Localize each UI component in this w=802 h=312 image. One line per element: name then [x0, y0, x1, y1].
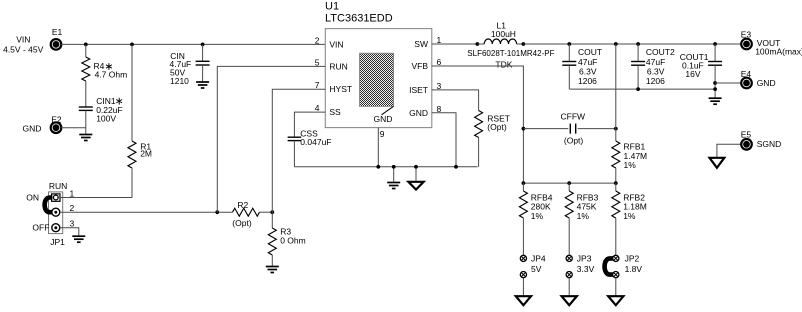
wire CIN to ground [202, 65, 204, 82]
svg-text:HYST: HYST [329, 84, 352, 94]
wire RFB3 to JP3 [568, 218, 570, 255]
wire cap ground rail [569, 88, 715, 90]
wire JP4 to ground [522, 278, 524, 296]
wire R1 to JP1 pin1 [131, 168, 133, 198]
wire SS pin4 to CSS [294, 112, 325, 137]
svg-text:4.7 Ohm: 4.7 Ohm [95, 69, 128, 79]
wire R4 to CIN1 [85, 81, 87, 107]
resistor RFB1 [612, 141, 620, 168]
ground below CIN [196, 81, 209, 83]
svg-text:LTC3631EDD: LTC3631EDD [325, 13, 393, 25]
IC U1 outline [325, 29, 432, 128]
svg-text:0.047uF: 0.047uF [300, 137, 331, 147]
wire U1 pin 9 [377, 128, 379, 167]
wire RFB1 bottom [615, 168, 617, 183]
junction L1 left [476, 42, 480, 46]
terminal E1 [51, 39, 62, 50]
JP2 shunt installed [605, 258, 613, 274]
svg-text:E3: E3 [741, 29, 752, 39]
wire RFB4 to JP4 [522, 218, 524, 255]
wire JP3 to ground [568, 278, 570, 296]
svg-text:R2: R2 [237, 200, 248, 210]
svg-text:1.8V: 1.8V [625, 264, 643, 274]
wire CSS to ground rail [293, 141, 295, 167]
ground (triangle) JP4 [516, 296, 531, 305]
wire JP1 pin2 run net [60, 211, 233, 213]
junction pin8/rail [454, 165, 458, 169]
junction CFFW/RFB1 [614, 127, 618, 131]
ground below R3 [266, 266, 279, 268]
junction COUT top [567, 42, 571, 46]
svg-text:1206: 1206 [646, 76, 665, 86]
svg-text:OFF: OFF [32, 223, 49, 233]
wire CFFW left [523, 128, 568, 130]
svg-text:1%: 1% [531, 211, 544, 221]
svg-text:E5: E5 [741, 130, 752, 140]
resistor R1 [128, 141, 136, 168]
junction RFB4 top [522, 181, 526, 185]
svg-text:COUT2: COUT2 [646, 47, 675, 57]
wire CFFW right [578, 128, 616, 130]
junction earth/rail [392, 165, 396, 169]
terminal E4 [741, 78, 752, 89]
U1 exposed pad [360, 53, 394, 106]
wire triangle stub [415, 167, 417, 182]
connector JP3 pin1 [566, 255, 572, 261]
wire SW rail to VOUT [523, 43, 741, 45]
wire RFB3 column [568, 183, 570, 191]
svg-text:ON: ON [26, 193, 39, 203]
svg-text:SS: SS [329, 107, 341, 117]
svg-text:6.3V: 6.3V [579, 66, 597, 76]
ground (earth) under U1 [387, 182, 400, 184]
svg-text:SLF6028T-101MR42-PF: SLF6028T-101MR42-PF [467, 49, 554, 58]
svg-text:VFB: VFB [411, 61, 428, 71]
resistor RSET [475, 111, 483, 138]
ground (triangle) JP2 [608, 296, 623, 305]
svg-text:16V: 16V [685, 69, 700, 79]
junction RFB2 top [614, 181, 618, 185]
wire RFB4 column [522, 183, 524, 191]
svg-text:2M: 2M [140, 149, 152, 159]
junction tri/rail [414, 165, 418, 169]
wire VIN rail [61, 43, 325, 45]
junction COUT2 top [636, 42, 640, 46]
svg-text:ISET: ISET [409, 85, 428, 95]
svg-text:3.3V: 3.3V [577, 264, 595, 274]
capacitor COUT1 [708, 61, 722, 63]
wire COUT1 column [714, 44, 716, 61]
wire E4 [715, 82, 741, 84]
terminal E3 [741, 39, 752, 50]
connector JP1 box [49, 192, 63, 234]
svg-text:(Opt): (Opt) [232, 218, 252, 228]
svg-text:100uH: 100uH [491, 29, 516, 39]
ground (triangle) JP3 [562, 296, 577, 305]
svg-text:JP1: JP1 [50, 237, 65, 247]
wire JP1 pin1 to R1 [60, 197, 132, 199]
terminal E5 [741, 139, 752, 150]
junction COUT1/cap rail [713, 87, 717, 91]
junction L1 right [522, 42, 526, 46]
capacitor CIN1 [79, 106, 93, 108]
ground JP1 pin3 [72, 235, 85, 237]
svg-text:CFFW: CFFW [561, 112, 586, 122]
junction COUT1/E4 wire [713, 81, 717, 85]
svg-text:SGND: SGND [757, 139, 782, 149]
wire COUT2 column [637, 44, 639, 61]
wire R3 to ground [271, 255, 273, 267]
JP1 pin 3 (round pad) [52, 224, 60, 232]
svg-text:0 Ohm: 0 Ohm [280, 236, 306, 246]
wire COUT column [568, 44, 570, 61]
svg-text:VIN: VIN [329, 39, 343, 49]
wire COUT2 bottom [637, 65, 639, 89]
svg-text:JP4: JP4 [531, 254, 546, 264]
svg-text:1%: 1% [577, 211, 590, 221]
svg-text:9: 9 [380, 129, 385, 139]
svg-text:1210: 1210 [170, 76, 189, 86]
wire VFB pin6 [432, 66, 524, 183]
svg-text:VIN: VIN [16, 35, 30, 45]
connector JP4 pin2 [520, 272, 526, 278]
svg-text:RUN: RUN [49, 181, 67, 191]
resistor R3 [268, 228, 276, 255]
svg-text:COUT: COUT [578, 47, 602, 57]
wire GND pin8 [432, 113, 456, 167]
capacitor COUT2 [631, 61, 645, 63]
JP1 shunt ON (pins 1-2) [45, 198, 53, 213]
svg-text:1%: 1% [623, 211, 636, 221]
wire feedback rail [523, 182, 615, 184]
svg-text:E2: E2 [51, 114, 62, 124]
svg-text:4.5V - 45V: 4.5V - 45V [3, 44, 43, 54]
svg-text:TDK: TDK [495, 60, 512, 70]
junction R1 top [130, 43, 134, 47]
connector JP2 pin1 [613, 255, 619, 261]
wire COUT bottom [568, 65, 570, 89]
wire earth stub [393, 167, 395, 183]
svg-text:47uF: 47uF [578, 57, 597, 67]
wire R3 column [271, 212, 273, 228]
connector JP4 pin1 [520, 255, 526, 261]
junction pin9/rail [376, 165, 380, 169]
wire JP1 pin3 to ground [60, 228, 79, 237]
wire R4 column [85, 44, 87, 57]
junction R3 top [270, 210, 274, 214]
connector JP3 pin2 [566, 272, 572, 278]
svg-text:SW: SW [414, 39, 428, 49]
svg-text:GND: GND [409, 108, 428, 118]
svg-text:(Opt): (Opt) [564, 135, 584, 145]
wire ISET pin3 [432, 90, 479, 111]
wire U1 ground rail [294, 166, 477, 168]
wire RFB1 column top [615, 44, 617, 141]
svg-text:GND: GND [757, 78, 776, 88]
ground (triangle) E5 [710, 158, 725, 168]
wire R2 to R3 node [260, 211, 273, 213]
U1 pad GND leader [382, 106, 394, 115]
svg-text:6.3V: 6.3V [647, 66, 665, 76]
svg-text:1206: 1206 [578, 76, 597, 86]
svg-text:2: 2 [315, 35, 320, 45]
wire E5 to ground [717, 144, 742, 158]
wire RUN pin5 [217, 66, 325, 212]
junction COUT2 rail [636, 87, 640, 91]
connector JP2 pin2 [613, 272, 619, 278]
terminal E2 [51, 122, 62, 133]
wire JP2 to ground [615, 278, 617, 296]
svg-text:100mA(max): 100mA(max) [755, 47, 802, 57]
wire R1 column top [131, 44, 133, 141]
junction RFB1 top [614, 42, 618, 46]
inductor L1 [484, 39, 516, 44]
svg-text:JP2: JP2 [625, 254, 640, 264]
svg-text:U1: U1 [325, 0, 339, 12]
svg-text:GND: GND [374, 114, 393, 124]
junction run/RUN-pin [215, 210, 219, 214]
wire RSET to ground rail [478, 138, 480, 167]
junction COUT1 top [713, 42, 717, 46]
ground below CIN1 [79, 134, 92, 136]
svg-text:RUN: RUN [329, 61, 347, 71]
ground (triangle) under U1 [408, 182, 423, 190]
wire E2 to CIN1 column [61, 127, 86, 129]
svg-text:1%: 1% [624, 160, 637, 170]
junction VFB/CFFW [522, 127, 526, 131]
svg-text:47uF: 47uF [646, 57, 665, 67]
ground below COUT1 [709, 97, 722, 99]
resistor R4 [82, 57, 90, 81]
svg-text:GND: GND [23, 124, 42, 134]
capacitor CSS [288, 136, 302, 138]
JP1 pin 2 (round pad) [52, 208, 60, 216]
capacitor CFFW [569, 124, 571, 134]
wire CIN column [202, 44, 204, 61]
resistor R2 [233, 208, 260, 216]
svg-text:JP3: JP3 [577, 254, 592, 264]
wire CIN1 to ground [85, 110, 87, 134]
resistor RFB3 [565, 191, 573, 218]
wire COUT1 to ground [714, 65, 716, 98]
wire RFB2 column [615, 183, 617, 191]
junction CIN top [201, 43, 205, 47]
svg-text:E4: E4 [741, 69, 752, 79]
wire HYST pin7 [272, 89, 325, 212]
JP1 pin 1 (square pad) [52, 194, 60, 201]
capacitor CIN [196, 60, 210, 62]
resistor RFB4 [519, 191, 527, 218]
svg-text:E1: E1 [52, 27, 63, 37]
svg-text:(Opt): (Opt) [487, 122, 507, 132]
svg-text:100V: 100V [96, 114, 116, 124]
junction R4 top [84, 43, 88, 47]
resistor RFB2 [612, 191, 620, 218]
junction RFB3 top [567, 181, 571, 185]
wire RFB2 to JP2 [615, 218, 617, 255]
svg-text:5V: 5V [531, 264, 542, 274]
capacitor COUT [562, 61, 576, 63]
wire SW pin1 [432, 43, 478, 45]
